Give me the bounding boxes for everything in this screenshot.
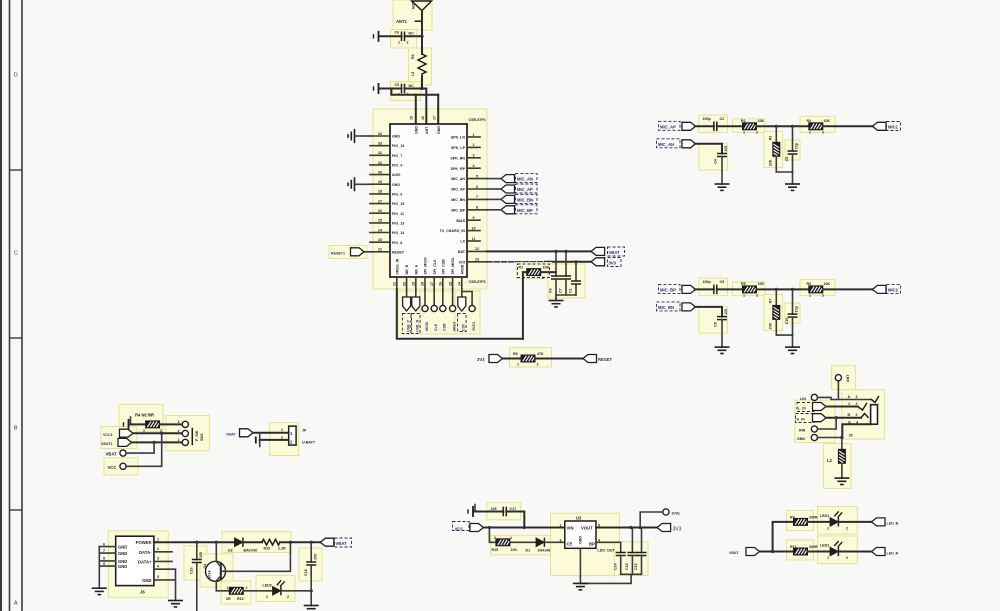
svg-text:C7: C7 [559, 288, 563, 293]
svg-text:JP: JP [302, 429, 307, 433]
svg-text:R7: R7 [769, 299, 773, 304]
resistor R1a 10K [743, 123, 757, 130]
wire R1 right to cap bank [541, 271, 556, 273]
svg-text:GND: GND [142, 578, 151, 583]
svg-text:DATA-: DATA- [139, 550, 152, 555]
wire node to R6 [421, 36, 423, 54]
svg-text:C16: C16 [634, 563, 638, 570]
svg-text:SPI_MOSI: SPI_MOSI [424, 258, 428, 275]
svg-text:330R: 330R [809, 545, 818, 549]
wire pin34 to ground [356, 135, 370, 137]
svg-text:SPI_CSB: SPI_CSB [441, 259, 445, 275]
capacitor C6 [402, 32, 405, 42]
svg-text:2: 2 [157, 547, 159, 551]
wire BP to C14 [596, 542, 621, 552]
net flag MIC_BP [682, 285, 696, 293]
pin 20 NB_B stub [406, 277, 408, 289]
svg-text:1: 1 [510, 536, 512, 540]
svg-text:1: 1 [848, 402, 850, 406]
svg-text:MIC_BP: MIC_BP [451, 208, 465, 212]
svg-text:R1: R1 [741, 119, 746, 123]
svg-text:13: 13 [475, 258, 479, 262]
wire C17 to VIN net [506, 512, 524, 528]
svg-text:3V31: 3V31 [672, 512, 680, 516]
ground shunt [785, 184, 800, 190]
svg-text:34: 34 [378, 132, 382, 136]
svg-text:MIC_BN: MIC_BN [517, 197, 533, 202]
svg-text:LX: LX [460, 240, 465, 244]
pin 12 BAT stub [467, 250, 487, 252]
junction node C10 [791, 288, 794, 291]
svg-text:C2: C2 [720, 117, 725, 121]
svg-text:LED3: LED3 [263, 584, 272, 588]
J6 pin5 GND wire [154, 579, 176, 581]
svg-text:30: 30 [378, 170, 382, 174]
wire Q4 emitter to R16 [216, 590, 229, 592]
resistor R5 10K [743, 286, 757, 293]
junction LED3 C18 [310, 589, 313, 592]
pin 17 SPI_CLK stub [433, 277, 435, 289]
connector J6 body [116, 536, 154, 585]
highlight IC [373, 109, 487, 289]
svg-text:C10: C10 [785, 318, 789, 325]
sheet border inner line 2 [21, 0, 23, 611]
svg-text:ANT: ANT [425, 126, 429, 134]
highlight C6 [391, 30, 417, 49]
ground bypass [715, 347, 730, 353]
resistor R16 [229, 587, 243, 594]
pin 18 SPI_MOSI stub [424, 277, 426, 289]
svg-text:105: 105 [314, 554, 318, 560]
junction gnd [840, 436, 843, 439]
junction BAT capA [554, 250, 557, 253]
net flag MIC_BP [501, 206, 515, 214]
svg-text:2: 2 [178, 429, 180, 433]
svg-text:4: 4 [856, 421, 858, 425]
capacitor C10 shunt [792, 289, 794, 314]
resistor R9 [794, 518, 808, 525]
capacitor C5 shunt [792, 126, 794, 151]
svg-text:CLK: CLK [434, 323, 438, 331]
node junction at C6 [420, 35, 423, 38]
svg-text:C15: C15 [625, 563, 629, 570]
pin 25 PIO_13 stub [370, 222, 390, 224]
svg-text:6: 6 [476, 185, 478, 189]
svg-text:C14: C14 [614, 563, 618, 570]
svg-text:1: 1 [827, 527, 829, 531]
wire cap to R1a [717, 125, 743, 127]
highlight LED1 [818, 507, 858, 535]
svg-text:3V3: 3V3 [609, 261, 617, 266]
net flag MIC_AP [501, 185, 515, 193]
svg-text:3: 3 [178, 420, 180, 424]
wire cap bank bottom [556, 295, 576, 301]
ground U3 [573, 583, 588, 589]
resistor R7 20K shunt [775, 289, 777, 305]
svg-text:2: 2 [846, 556, 848, 560]
svg-text:23: 23 [378, 238, 382, 242]
jack tip contact A [871, 397, 878, 403]
highlight C17 [487, 503, 521, 520]
node junction at C5 [420, 87, 423, 90]
op IC body U1 [390, 124, 467, 277]
wire R6 to C5 node [421, 77, 423, 89]
svg-text:1: 1 [281, 428, 283, 432]
svg-text:SPK_LN: SPK_LN [451, 136, 466, 140]
svg-text:33: 33 [378, 142, 382, 146]
svg-text:MIC_BP: MIC_BP [660, 287, 676, 292]
ground shunt [785, 347, 800, 353]
svg-text:GND: GND [415, 126, 419, 134]
svg-text:PIO_13: PIO_13 [392, 144, 404, 148]
svg-text:NB_B: NB_B [405, 264, 409, 274]
svg-text:10K: 10K [511, 548, 518, 552]
svg-text:3: 3 [856, 395, 858, 399]
highlight flags [101, 427, 137, 449]
pin 22 RESET stub [370, 251, 390, 253]
svg-text:10K: 10K [758, 282, 765, 286]
svg-text:SPK_LP: SPK_LP [451, 146, 466, 150]
svg-text:PIO_7: PIO_7 [392, 154, 402, 158]
svg-text:R6: R6 [807, 282, 812, 286]
wire R15 to D1 [510, 541, 536, 543]
highlight antenna [393, 0, 432, 30]
highlight Q4 [200, 554, 233, 587]
pin 31 PIO_4 stub [370, 164, 390, 166]
capacitor C5 [402, 84, 405, 94]
terminal ANT circle [835, 375, 841, 381]
highlight R9 [787, 511, 814, 531]
svg-text:LED2: LED2 [820, 544, 829, 548]
svg-text:3V3: 3V3 [459, 260, 465, 264]
ground at pin34 [348, 129, 354, 143]
resistor R10 zigzag [262, 539, 280, 545]
svg-text:2: 2 [856, 402, 858, 406]
svg-text:7: 7 [103, 549, 105, 553]
svg-text:CS0: CS0 [462, 324, 466, 331]
svg-text:1: 1 [266, 595, 268, 599]
svg-text:R16: R16 [237, 597, 244, 601]
connector SW1 pin1 [182, 439, 188, 445]
svg-text:C9: C9 [720, 280, 725, 284]
highlight right pair [455, 291, 480, 334]
svg-text:VREG_IN: VREG_IN [395, 258, 399, 274]
svg-text:GND: GND [437, 126, 441, 134]
capacitor C1 [575, 262, 577, 281]
junction Q4 [215, 541, 218, 544]
junction split [771, 550, 774, 553]
wire jog to 3V3O terminal [462, 292, 472, 306]
svg-text:ANT1: ANT1 [396, 19, 408, 24]
svg-text:31: 31 [378, 161, 382, 165]
J6 pin1 POWER wire [154, 541, 235, 543]
pin 6 MIC_AP stub [467, 188, 487, 190]
svg-text:BAV243: BAV243 [244, 549, 257, 553]
svg-text:8: 8 [476, 206, 478, 210]
pin 30 AIO0 stub [370, 174, 390, 176]
resistor R1 [527, 269, 541, 276]
wire RESET pin22 to flag [364, 251, 370, 253]
svg-text:15: 15 [448, 282, 452, 286]
wire R9 to LED1 [808, 521, 831, 523]
svg-text:MIC_AN: MIC_AN [658, 142, 674, 147]
net flag 3V3 out [657, 524, 671, 532]
svg-text:R10: R10 [264, 547, 271, 551]
svg-text:7: 7 [476, 195, 478, 199]
svg-text:USB_N: USB_N [416, 319, 420, 332]
junction C18 [310, 541, 313, 544]
svg-text:LED_R: LED_R [887, 551, 899, 555]
pin 1 SPK_LN stub [467, 136, 480, 138]
svg-text:9: 9 [103, 562, 105, 566]
svg-text:105: 105 [724, 146, 728, 152]
highlight R11 [787, 540, 814, 560]
svg-text:L5: L5 [411, 72, 415, 76]
resistor R4 [146, 421, 160, 428]
connector JP body [289, 426, 296, 445]
svg-text:C6: C6 [395, 31, 400, 35]
resistor R15 10K [496, 539, 510, 546]
wire down to R15 [489, 528, 496, 543]
net flag LED_B [872, 518, 886, 526]
svg-text:47K: 47K [537, 352, 544, 356]
LED LED2 [830, 541, 842, 556]
svg-text:3: 3 [157, 557, 159, 561]
highlight R15 D1 [491, 535, 560, 555]
svg-text:14: 14 [458, 282, 462, 286]
net flag in [489, 355, 503, 363]
net flag MIC_AN [501, 175, 515, 183]
capacitor C16a [196, 542, 198, 559]
pin 23 PIO_8 stub [370, 241, 390, 243]
wire ant to jack tip [838, 381, 871, 400]
svg-text:VOUT: VOUT [581, 526, 593, 531]
svg-text:VBAT: VBAT [106, 452, 118, 457]
border row tick 1 [10, 169, 23, 171]
net flag RESET out [583, 355, 597, 363]
ground L2 [834, 478, 849, 484]
svg-text:R8: R8 [513, 352, 518, 356]
pin 27 PIO_15 stub [370, 203, 390, 205]
svg-text:6: 6 [103, 542, 105, 546]
wire cap to R5 [717, 288, 743, 290]
terminal CSB [442, 289, 444, 305]
highlight R4 [119, 405, 163, 432]
svg-text:R11: R11 [790, 545, 796, 549]
jack R contact [861, 414, 868, 418]
flag down USB_N [415, 289, 417, 297]
svg-text:GND: GND [797, 437, 805, 441]
junction 3V3 capC [574, 260, 577, 263]
resistor R6a 10K [809, 286, 823, 293]
highlight R7 [764, 294, 783, 330]
wire R4 to SW1 pin3 [160, 423, 182, 425]
highlight R2 [800, 116, 835, 132]
svg-text:1: 1 [743, 293, 745, 297]
wire R8 to RESET flag [535, 358, 583, 360]
svg-text:1: 1 [560, 524, 562, 528]
wire R flag to jack ring [826, 417, 861, 419]
wire R10 to VBAT flag [280, 541, 320, 543]
highlight cap bank [548, 264, 585, 298]
svg-text:10K: 10K [758, 119, 765, 123]
svg-text:22: 22 [378, 248, 382, 252]
pin 14 AVDD stub [461, 277, 463, 289]
svg-text:VBAT: VBAT [729, 551, 739, 555]
highlight C4 [699, 144, 728, 170]
highlight R8 [510, 348, 552, 368]
wire gnd to C5 [379, 88, 402, 90]
svg-text:D2: D2 [228, 549, 233, 553]
svg-text:20K: 20K [769, 322, 773, 329]
svg-text:PIO_15: PIO_15 [392, 202, 404, 206]
resistor R6 zigzag [418, 54, 426, 77]
svg-text:1: 1 [157, 538, 159, 542]
svg-text:MIC_BN: MIC_BN [658, 305, 674, 310]
svg-text:2: 2 [407, 41, 409, 45]
svg-text:15: 15 [410, 116, 414, 120]
sheet border inner line 1 [9, 0, 11, 611]
svg-text:12: 12 [475, 247, 479, 251]
svg-text:2: 2 [756, 293, 758, 297]
highlight D2 R10 [222, 532, 291, 553]
svg-text:LIN: LIN [800, 397, 806, 401]
wire R5 to R6a [757, 288, 809, 290]
wire LED1 to flag [838, 521, 871, 523]
terminal CLK [433, 289, 435, 305]
LED LED3 [273, 580, 285, 595]
capacitor C17 [503, 507, 506, 517]
svg-text:2: 2 [756, 130, 758, 134]
svg-text:1: 1 [143, 429, 145, 433]
wire flag to cap [695, 125, 714, 127]
junction vcc riser [160, 432, 163, 435]
highlight jack body [842, 390, 885, 439]
wire Q4 base feedback [221, 542, 291, 571]
ground cap bank [549, 301, 564, 307]
terminal RIN circle [811, 426, 817, 432]
net flag VBAT4 [320, 538, 334, 546]
svg-text:1: 1 [743, 130, 745, 134]
diode D2 BAV243 [235, 538, 243, 547]
capacitor C9 [714, 285, 717, 295]
wire C5 to node [405, 88, 423, 90]
svg-text:R9: R9 [790, 516, 795, 520]
pin 16 SPI_CSB stub [442, 277, 444, 289]
wire LIN to jack [818, 397, 839, 399]
svg-text:27: 27 [378, 199, 382, 203]
svg-text:2R: 2R [226, 597, 231, 601]
svg-text:3V3O: 3V3O [472, 322, 476, 331]
pin 21 VREG_IN stub [396, 277, 398, 289]
highlight L2 [824, 444, 852, 489]
svg-text:100p: 100p [703, 280, 712, 284]
svg-text:VBAT: VBAT [336, 541, 348, 546]
svg-text:L2: L2 [827, 458, 833, 463]
pin 34 GND stub [370, 135, 390, 137]
highlight R1 [517, 263, 552, 279]
wire LED3 up to VBAT node [281, 590, 311, 592]
flag down USB_P [406, 289, 408, 297]
svg-text:10K: 10K [543, 266, 550, 270]
capacitor C15 [631, 528, 633, 553]
svg-text:R15: R15 [492, 548, 499, 552]
net flag LED_R [872, 548, 886, 556]
junction node C5 [791, 125, 794, 128]
svg-text:R6: R6 [411, 54, 415, 59]
svg-text:CSR-57F6: CSR-57F6 [469, 118, 486, 122]
svg-text:2: 2 [542, 276, 544, 280]
power tap left of C17 [468, 506, 473, 517]
ground bypass [715, 184, 730, 190]
highlight C5 [391, 82, 421, 101]
gnd bar symbol [255, 437, 257, 444]
pin 9 BIAS stub [467, 219, 480, 221]
svg-text:RESET: RESET [598, 357, 612, 362]
svg-text:MIC_AN: MIC_AN [517, 177, 533, 182]
svg-text:RESET1: RESET1 [331, 252, 345, 256]
svg-text:AVDD: AVDD [460, 264, 464, 274]
highlight R1a [733, 119, 766, 133]
net flag MIC2 [873, 285, 887, 293]
svg-text:PIO_11: PIO_11 [392, 212, 404, 216]
wire shunt bottom [776, 171, 792, 173]
svg-text:MIC_AP: MIC_AP [660, 124, 676, 129]
svg-text:GND: GND [118, 564, 127, 569]
svg-text:1: 1 [517, 363, 519, 367]
border row tick 3 [10, 509, 23, 511]
wire R2 to out flag [823, 125, 873, 127]
highlight R6 [409, 48, 432, 85]
highlight out caps [614, 542, 648, 576]
wire BAT pin12 [487, 250, 591, 252]
pin 13 3V3 stub [467, 261, 487, 263]
svg-text:10K: 10K [824, 282, 831, 286]
power tap left of R4 [124, 419, 129, 430]
pin 32 PIO_7 stub [370, 154, 390, 156]
terminal GND circle [811, 434, 817, 440]
svg-text:C4: C4 [714, 159, 718, 164]
wire GND to sleeve and L2 [818, 438, 843, 450]
inductor L2 [838, 449, 845, 463]
terminal LIN circle [811, 394, 817, 400]
highlight C5 [785, 140, 800, 160]
highlight spi circles [420, 291, 458, 334]
svg-text:SPI_MISO: SPI_MISO [451, 257, 455, 274]
svg-text:BP: BP [589, 542, 595, 547]
wire to pin17 [437, 95, 439, 124]
svg-text:2: 2 [287, 595, 289, 599]
net flag MIC1 [873, 122, 887, 130]
capacitor C6a [555, 251, 557, 276]
wire flag to cap [695, 288, 714, 290]
wire shunt bottom [776, 334, 792, 336]
wire vcc circle riser [126, 433, 162, 466]
capacitor C18 [310, 542, 312, 562]
svg-text:B: B [848, 413, 851, 417]
svg-text:A: A [848, 395, 851, 399]
wire tap to C17 [473, 511, 503, 513]
svg-text:24: 24 [378, 228, 382, 232]
svg-text:2: 2 [281, 436, 283, 440]
svg-text:MIC_BP: MIC_BP [517, 208, 533, 213]
wire 3V31 test point [640, 512, 663, 528]
net flag VBAT out [591, 247, 605, 255]
svg-text:17: 17 [433, 116, 437, 120]
svg-text:2: 2 [846, 527, 848, 531]
pin 11 LX stub [467, 240, 480, 242]
svg-text:U3: U3 [576, 516, 582, 521]
